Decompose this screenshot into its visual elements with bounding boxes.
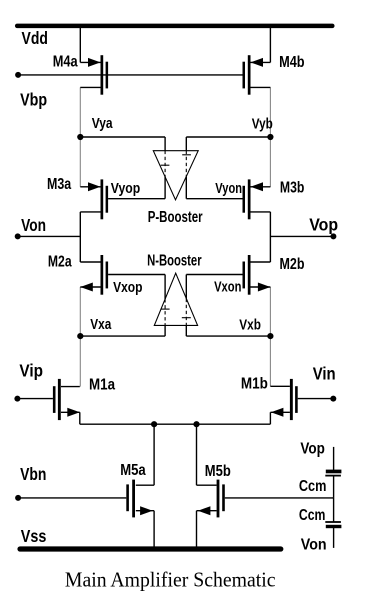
svg-text:Ccm: Ccm	[299, 478, 327, 495]
svg-text:Vyb: Vyb	[252, 116, 273, 132]
svg-text:Ccm: Ccm	[299, 507, 326, 524]
svg-text:M1b: M1b	[241, 375, 268, 392]
svg-text:M4b: M4b	[279, 54, 305, 71]
svg-text:M1a: M1a	[89, 376, 115, 393]
svg-text:Vyon: Vyon	[215, 181, 242, 197]
svg-text:Von: Von	[21, 215, 46, 235]
svg-text:M3b: M3b	[280, 179, 305, 196]
svg-text:Vbn: Vbn	[20, 464, 46, 484]
svg-text:M5b: M5b	[205, 463, 231, 480]
svg-text:Vip: Vip	[19, 360, 43, 380]
svg-text:M3a: M3a	[47, 176, 71, 193]
svg-text:Vss: Vss	[21, 526, 47, 546]
svg-text:Vop: Vop	[300, 441, 325, 458]
svg-text:Vyop: Vyop	[111, 181, 141, 197]
svg-text:M4a: M4a	[53, 54, 78, 71]
svg-text:M2b: M2b	[280, 256, 305, 273]
svg-text:N-Booster: N-Booster	[147, 252, 202, 269]
svg-text:Vya: Vya	[92, 116, 114, 132]
svg-text:Vin: Vin	[313, 363, 336, 383]
svg-text:Vxop: Vxop	[113, 280, 143, 296]
svg-text:Vxa: Vxa	[90, 317, 112, 333]
svg-text:Von: Von	[301, 537, 327, 554]
svg-text:Vxb: Vxb	[239, 318, 261, 334]
svg-text:M2a: M2a	[48, 254, 72, 271]
svg-text:Main Amplifier Schematic: Main Amplifier Schematic	[65, 567, 276, 591]
svg-text:Vxon: Vxon	[214, 280, 241, 296]
svg-text:Vdd: Vdd	[22, 28, 48, 48]
svg-text:M5a: M5a	[120, 462, 146, 479]
svg-text:P-Booster: P-Booster	[148, 209, 203, 226]
svg-text:Vop: Vop	[309, 215, 338, 235]
svg-text:Vbp: Vbp	[20, 89, 47, 109]
